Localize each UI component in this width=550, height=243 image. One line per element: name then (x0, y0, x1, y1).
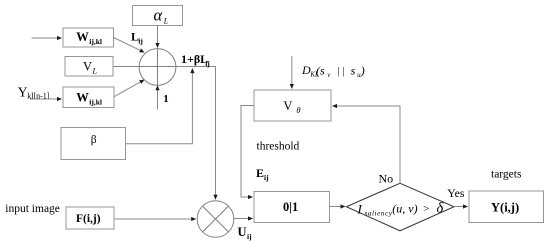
svg-text:|: | (342, 66, 345, 77)
box Y(i,j) (469, 191, 544, 223)
label Lij (131, 29, 143, 45)
svg-text:β: β (91, 134, 97, 146)
label D_KL(s_v || s_u) (301, 63, 365, 79)
svg-text:ij,kl: ij,kl (89, 37, 102, 46)
svg-text:No: No (379, 172, 394, 186)
svg-text:α: α (154, 5, 163, 24)
label Eij (256, 166, 269, 182)
wire beta path up into output line (126, 69, 193, 144)
svg-text:targets: targets (491, 169, 522, 181)
wire alpha_L down into summer (157, 26, 159, 48)
wire V_L horizontal through summer to corner and down to multiplier (113, 67, 216, 200)
svg-text:ij,kl: ij,kl (89, 97, 102, 106)
svg-text:E: E (256, 166, 264, 180)
svg-text:ij: ij (264, 173, 269, 182)
wire W2 to summer (114, 80, 145, 97)
svg-text:θ: θ (296, 105, 300, 115)
svg-text:saliency: saliency (365, 210, 393, 218)
box W1 Wij,kl (63, 28, 114, 47)
wire input arrow into W1 (32, 37, 62, 39)
svg-text:F(i,j): F(i,j) (76, 213, 101, 225)
svg-text:Y(i,j): Y(i,j) (491, 201, 519, 215)
svg-text:input image: input image (5, 203, 60, 215)
svg-text:L: L (92, 67, 98, 76)
svg-text:V: V (83, 60, 92, 74)
label Y_kl[n-1] (18, 84, 50, 100)
svg-text:W: W (76, 90, 89, 104)
svg-text:V: V (283, 99, 292, 113)
wire W1 to summer (Lij path) (114, 38, 145, 53)
wire U from multiplier into 0|1 box (234, 218, 253, 220)
svg-text:W: W (76, 30, 89, 44)
svg-text:|: | (337, 66, 340, 77)
label 1+betaLij (181, 52, 210, 68)
label Uij (238, 225, 253, 241)
multiplier circle with X (197, 201, 234, 238)
svg-text:ij: ij (138, 36, 143, 45)
wire Ykl arrow into W2 (30, 98, 62, 100)
svg-text:1: 1 (163, 93, 169, 105)
svg-text:U: U (238, 225, 247, 239)
box 0|1 (254, 192, 330, 223)
svg-text:ij: ij (205, 59, 210, 68)
summer circle with cross (139, 49, 176, 86)
svg-text:L: L (163, 17, 169, 26)
svg-text:0|1: 0|1 (283, 200, 298, 214)
svg-text:ij: ij (247, 232, 252, 241)
box W2 Wij,kl (63, 87, 114, 108)
wire 0|1 to decision diamond (330, 206, 346, 208)
wire Yes path from diamond to Y box (454, 206, 468, 208)
box beta (61, 128, 126, 160)
svg-text:(s: (s (316, 64, 325, 78)
svg-text:(u, v): (u, v) (392, 202, 417, 216)
svg-text:>: > (423, 203, 430, 215)
decision diamond I_saliency(u,v) > delta (346, 183, 454, 231)
box alpha_L (133, 5, 183, 25)
svg-text:s: s (351, 64, 356, 78)
box V_L (65, 57, 113, 77)
wire E path from V_theta down into 0|1 (241, 106, 254, 198)
svg-text:Yes: Yes (447, 186, 465, 200)
wire F to multiplier (114, 218, 196, 220)
svg-text:I: I (357, 202, 363, 217)
svg-text:1+βL: 1+βL (181, 52, 208, 66)
box V_theta (254, 90, 331, 121)
svg-text:threshold: threshold (257, 141, 300, 153)
svg-text:δ: δ (437, 201, 444, 217)
wire DKL down into V_theta (291, 56, 293, 89)
wire constant 1 stub into summer bottom (157, 86, 159, 110)
wire No path from diamond top into V_theta right (333, 106, 401, 183)
svg-text:): ) (360, 64, 365, 78)
box F(i,j) (66, 207, 114, 229)
svg-text:v: v (327, 71, 331, 79)
